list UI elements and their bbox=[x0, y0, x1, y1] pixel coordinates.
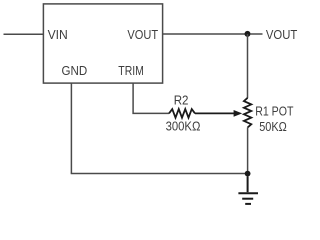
wire GND pin down bbox=[70, 83, 72, 173]
wire bottom rail bbox=[71, 173, 248, 175]
svg-text:VOUT: VOUT bbox=[266, 28, 298, 42]
svg-text:VOUT: VOUT bbox=[127, 28, 158, 42]
wire VOUT to node bbox=[163, 33, 248, 35]
svg-text:VIN: VIN bbox=[48, 28, 68, 42]
svg-text:50KΩ: 50KΩ bbox=[259, 120, 287, 134]
wire R2 to wiper arrow bbox=[195, 112, 235, 114]
potentiometer R1 zigzag bbox=[244, 98, 251, 128]
node VOUT junction dot bbox=[245, 31, 251, 37]
op-amp U1 (regulator IC box) bbox=[43, 4, 162, 83]
wire VOUT stub bbox=[251, 33, 263, 35]
wire pot bottom to rail bbox=[247, 128, 249, 174]
svg-text:300KΩ: 300KΩ bbox=[166, 120, 201, 134]
ground bbox=[238, 177, 258, 204]
node ground junction dot bbox=[245, 171, 251, 177]
svg-text:GND: GND bbox=[62, 64, 88, 78]
wire node to pot top bbox=[247, 34, 249, 98]
svg-text:R1 POT: R1 POT bbox=[255, 105, 294, 119]
wire TRIM pin to R2 bbox=[133, 83, 169, 113]
wiper arrowhead bbox=[234, 110, 243, 117]
wire VIN input bbox=[4, 33, 44, 35]
resistor R2 bbox=[169, 109, 195, 118]
svg-text:R2: R2 bbox=[174, 94, 189, 108]
svg-text:TRIM: TRIM bbox=[118, 64, 144, 78]
